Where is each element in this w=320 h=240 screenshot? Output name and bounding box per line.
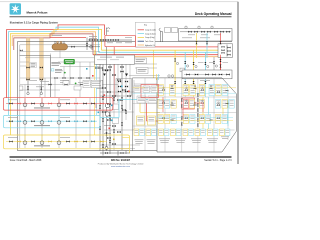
svg-text:Issue: Final Draft - March 200: Issue: Final Draft - March 2008 [10, 159, 42, 162]
lower tier tank boxes strip [134, 129, 230, 136]
hull outline [157, 78, 237, 152]
plan band colored segments [133, 92, 237, 94]
stripping pump circle [105, 147, 108, 150]
red link to plan [147, 103, 161, 121]
legend yellow sample [138, 36, 144, 38]
tan riser 2 [40, 38, 44, 80]
red feed vertical [220, 33, 222, 55]
drop triangle 2 [103, 74, 106, 77]
footer rule [10, 156, 232, 157]
manifold circle [90, 46, 93, 49]
svg-text:Key: Key [144, 24, 147, 26]
maroon line top-left [14, 34, 93, 55]
small box b [172, 28, 178, 33]
riser valve 2 [40, 67, 43, 69]
svg-text:Section 5.2.1 - Page 1 of 3: Section 5.2.1 - Page 1 of 3 [204, 159, 232, 162]
crossover valves [89, 39, 118, 41]
inner line 2 [19, 45, 21, 148]
slop drop red [220, 55, 222, 70]
eductor circle 2 [105, 112, 109, 116]
yellow drop 1 [174, 50, 176, 80]
mid drop valve clusters [174, 59, 221, 65]
sea chest connections bottom [100, 151, 130, 156]
column valves upper [95, 66, 127, 148]
slop red highlight box [141, 85, 159, 98]
yellow mid line [102, 49, 222, 51]
no2 red highlight box [182, 98, 195, 109]
small box by frame [19, 86, 23, 90]
manifold area labels [36, 81, 85, 87]
tank cleaning label [89, 35, 97, 38]
frame valve [20, 50, 23, 52]
stripping vessel [52, 41, 68, 50]
eductor circle 1 [105, 103, 109, 107]
long slop box [182, 70, 232, 79]
plan bottom labels [159, 137, 229, 143]
frame box labels [30, 57, 128, 134]
Maersk logo [10, 3, 21, 14]
cyan feed vertical [206, 33, 208, 52]
inter-group grey risers [25, 98, 90, 148]
yellow cargo bus top [10, 29, 101, 135]
small box left of slop [180, 68, 185, 72]
slop cell borders [133, 78, 158, 152]
crude oil wash label box [30, 63, 37, 68]
yellow cyan feeds left plan [155, 74, 157, 80]
center valves [102, 69, 130, 145]
vent mast [159, 28, 163, 42]
colored micro valves [86, 68, 130, 140]
orange bus top [12, 32, 95, 57]
cyan cargo bus top [9, 27, 99, 115]
side box c2 [113, 118, 119, 124]
plan red route [163, 97, 203, 119]
cyan drop 1 [184, 52, 186, 80]
cyan drop 2 [204, 52, 206, 81]
crossover red box [105, 35, 136, 46]
riser valve 3 [26, 79, 29, 81]
page background [0, 0, 241, 170]
white box B [137, 68, 149, 74]
svg-text:www.wmtmarine.com: www.wmtmarine.com [111, 165, 130, 168]
red mid line lower [93, 54, 222, 56]
slop cell boxes [134, 86, 158, 93]
sea chest valves [105, 152, 124, 154]
manifold drop valves into plan [174, 81, 206, 84]
green label box [64, 59, 75, 64]
svg-text:IMO No: 9344497: IMO No: 9344497 [111, 159, 131, 162]
plan grid verticals [165, 78, 228, 152]
white box A [135, 58, 147, 64]
stripping line red [50, 36, 86, 38]
plan cyan verticals [185, 80, 228, 130]
plan yellow verticals [175, 80, 223, 130]
pump group 1 internals [6, 98, 110, 108]
svg-text:Hydraulic Oil: Hydraulic Oil [145, 44, 155, 47]
vent riser symbol [107, 28, 111, 36]
header rule [10, 15, 232, 18]
green dot [64, 72, 66, 74]
cyan drop to group2 [96, 52, 98, 115]
yellow feed vertical [196, 33, 198, 50]
side box c1 [113, 104, 119, 110]
pump group 2 internals [6, 116, 97, 121]
svg-text:Maersk Pelican: Maersk Pelican [27, 11, 48, 15]
red mid line upper [136, 46, 222, 48]
riser bottom valves [27, 86, 42, 89]
crossover labels [107, 37, 132, 43]
inner top line 2 [20, 44, 100, 46]
mid yellow tank boxes [137, 116, 156, 125]
cargo label box 1 [83, 80, 90, 88]
svg-text:Produced by Worldwide Marine T: Produced by Worldwide Marine Technology … [98, 162, 143, 165]
plan cell valve specks [162, 88, 228, 121]
yellow drop to group3 [94, 50, 96, 135]
page right edge [237, 2, 239, 164]
plan grid horizontals [157, 97, 237, 130]
diagram bottom line [18, 150, 158, 152]
pump group 3 internals [6, 136, 107, 142]
cargo label box 2 [91, 80, 102, 88]
slop cell labels [135, 140, 156, 144]
crossover line [88, 39, 132, 41]
svg-text:Deck Operating Manual: Deck Operating Manual [195, 12, 232, 16]
slop drop cyan [206, 52, 208, 58]
main cargo column pipes [100, 47, 122, 151]
svg-text:Cargo (Clean): Cargo (Clean) [145, 32, 156, 35]
riser bottom fittings [28, 80, 41, 92]
cyan link to plan [100, 99, 160, 117]
small cf circles [168, 75, 170, 77]
svg-text:Tank Clean: Tank Clean [145, 41, 154, 43]
drop valves [196, 41, 222, 44]
vessel outlet piping [68, 37, 101, 50]
deck line valve row [49, 77, 90, 85]
tan riser 1 [26, 38, 30, 80]
diagram left frame [17, 42, 19, 151]
cyan legend chip [51, 69, 54, 71]
note text block [51, 62, 62, 73]
diagram top black line [18, 41, 233, 43]
slop tank label [200, 79, 210, 82]
stripping line label [52, 34, 62, 37]
small box a [165, 28, 171, 33]
red riser crossover to pumps [113, 47, 115, 98]
slop drop labels [198, 61, 228, 64]
legend orange sample [138, 44, 144, 46]
svg-text:Cargo (Dirty): Cargo (Dirty) [145, 36, 155, 39]
svg-text:Illustration 5.2.1a Cargo Pip: Illustration 5.2.1a Cargo Piping System [10, 21, 59, 25]
manifold box top circles [185, 26, 213, 28]
small boxes mid deck [63, 81, 69, 86]
cyan pump group box [3, 115, 100, 127]
riser valve 1 [26, 67, 29, 69]
red pump group box [3, 98, 113, 110]
slop drop yellow [196, 50, 198, 58]
legend red sample [138, 29, 144, 31]
tank clean sub-box [116, 79, 132, 97]
cyan mid line [99, 51, 222, 53]
svg-text:Cargo (Crude): Cargo (Crude) [145, 29, 156, 32]
page top edge [0, 1, 238, 3]
yellow drop 2 [193, 50, 195, 81]
riser valve 4 [40, 79, 43, 81]
plan valve column [181, 94, 199, 127]
red cargo bus top [7, 25, 105, 98]
tank cleaning main box [95, 55, 135, 64]
manifold box top right [179, 29, 233, 42]
red drop right [220, 55, 222, 72]
legend cyan sample [138, 33, 144, 35]
slop drop valves [193, 62, 222, 68]
yellow link to plan [122, 101, 160, 153]
middle band boxes [158, 100, 234, 109]
vessel valve [71, 43, 88, 48]
green dot 2 [75, 83, 77, 85]
yellow drop mast [153, 50, 155, 78]
right edge valve cluster box [218, 44, 233, 58]
lower band boxes [158, 115, 227, 124]
mid tank label boxes [137, 96, 157, 103]
legend navy sample [138, 40, 144, 42]
yellow pump group box [3, 135, 129, 149]
drop tank triangle [125, 74, 128, 77]
orange mid line [96, 56, 222, 58]
tank boxes top band [158, 85, 228, 96]
tank box text top band [159, 86, 227, 93]
